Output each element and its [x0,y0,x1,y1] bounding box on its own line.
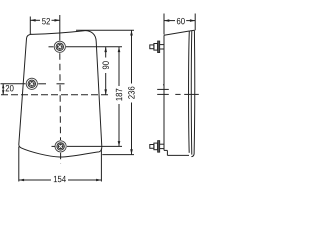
side view: lens front lines [189,30,195,156]
vertical centerline through S1 and S3 [59,15,62,164]
dimension 187 [118,47,120,147]
dimension text 236 [128,87,134,99]
dimension 60 [164,14,195,35]
side view: bottom mounting bolt [150,141,164,153]
dimension text 20 [6,85,14,91]
side view: top mounting bolt [150,41,164,53]
side view: back plate [164,35,189,155]
dimension 236 [76,30,134,154]
screw S2 lower-left (front view) [26,78,37,89]
side view: middle bracket tab [157,84,169,89]
dimension text 90 [102,61,108,69]
dimension text 187 [116,89,122,101]
dimension 20 [2,84,4,95]
dashed reference line (lamp horizontal axis) [1,94,108,96]
dimension 154 [19,147,102,182]
horizontal centerline through S3 + extension to 187 dim [52,145,123,147]
screw S1 top (front view) [54,41,65,52]
side view: top edge [164,30,195,35]
dimension 90 [105,47,107,95]
screw S3 bottom (front view) [55,141,66,152]
dimension 52 [30,17,60,35]
lamp body outline (front view) [19,31,102,157]
dimension text 60 [177,18,185,24]
dimension text 154 [54,176,66,182]
dimension text 52 [42,18,50,24]
horizontal centerline through S1 + extension to 90/187 dims [49,46,123,48]
horizontal centerline through S2 (extension for 20 dim) [1,83,65,85]
side view: horizontal centerline [157,93,199,95]
